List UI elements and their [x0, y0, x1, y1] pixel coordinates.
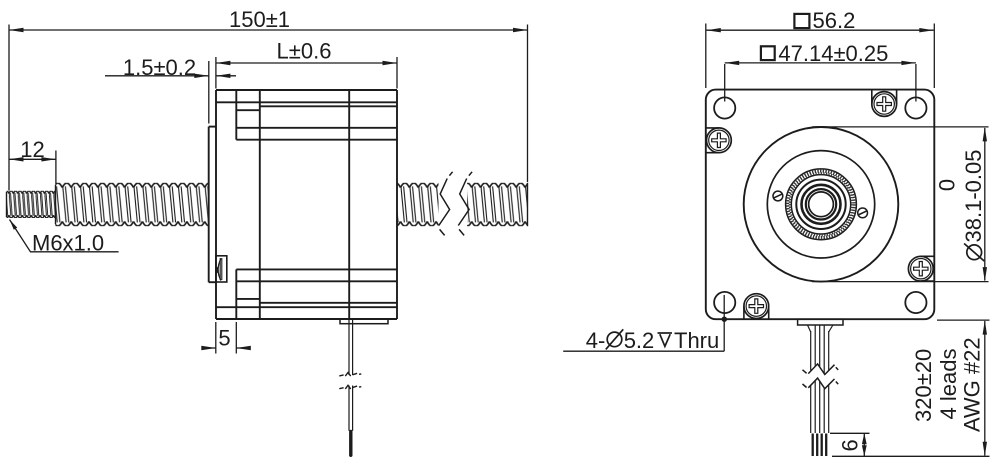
svg-text:56.2: 56.2 [813, 8, 856, 33]
svg-text:4-: 4- [586, 328, 606, 353]
svg-text:0: 0 [935, 179, 960, 191]
svg-text:5.2: 5.2 [624, 328, 655, 353]
svg-text:47.14±0.25: 47.14±0.25 [778, 41, 888, 66]
svg-text:150±1: 150±1 [229, 7, 290, 32]
svg-text:5: 5 [218, 326, 230, 351]
svg-text:320±20: 320±20 [911, 349, 936, 422]
svg-text:12: 12 [20, 137, 44, 162]
svg-text:AWG #22: AWG #22 [960, 337, 985, 432]
svg-text:38.1-0.05: 38.1-0.05 [961, 150, 986, 243]
svg-text:4 leads: 4 leads [936, 349, 961, 420]
svg-text:M6x1.0: M6x1.0 [32, 231, 104, 256]
svg-text:6: 6 [838, 439, 863, 451]
svg-text:Thru: Thru [674, 328, 719, 353]
svg-text:L±0.6: L±0.6 [277, 39, 332, 64]
svg-text:1.5±0.2: 1.5±0.2 [123, 55, 196, 80]
